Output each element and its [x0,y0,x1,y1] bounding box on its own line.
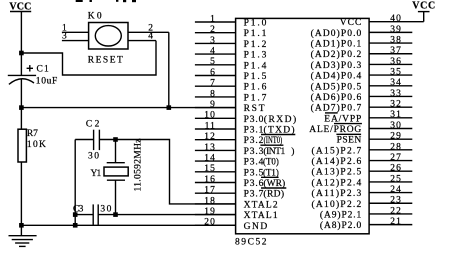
svg-text:7: 7 [210,79,216,89]
svg-text:14: 14 [204,154,216,164]
svg-text:21: 21 [390,217,402,227]
node: crystal top junction [113,137,118,142]
svg-text:28: 28 [390,142,402,152]
pin 15 (P3.5(T1) [195,164,279,178]
wire from VCC junction to button pin 4 [21,41,156,75]
svg-text:1: 1 [210,14,216,24]
svg-text:P3.4(T0): P3.4(T0) [244,157,279,168]
wire crystal bottom lead [115,180,117,214]
resistor R7 body [18,129,26,162]
svg-text:19: 19 [204,207,216,217]
node: C3 rail on ground wire [73,223,78,228]
pin 8 (P1.7) [195,89,267,103]
pin 36 ((AD3)P0.3) [311,57,413,71]
wire R7 to ground [20,162,22,236]
svg-text:4: 4 [210,47,216,57]
svg-text:(A9)P2.1: (A9)P2.1 [320,209,362,220]
pin 30 (ALE/PROG) [309,121,412,135]
pin 5 (P1.4) [195,57,267,71]
svg-text:10K: 10K [27,140,46,150]
svg-text:12: 12 [204,132,216,142]
pin 11 (P3.1(TXD) [195,121,295,135]
svg-text:35: 35 [390,68,402,78]
svg-text:P1.5: P1.5 [244,72,267,82]
svg-text:36: 36 [390,57,402,67]
svg-text:P1.7: P1.7 [244,93,267,103]
wire C2/C3 left rail [75,140,93,226]
svg-text:15: 15 [204,164,216,174]
svg-text:40: 40 [390,14,402,24]
pin 7 (P1.6) [195,79,267,93]
svg-text:13: 13 [204,143,216,153]
svg-text:31: 31 [390,110,402,120]
pin 22 ((A9)P2.1) [320,206,412,220]
pin 1 (P1.0) [195,14,267,28]
pin 27 ((A14)P2.6) [312,153,413,167]
svg-text:8: 8 [210,89,216,99]
wire C3 right to IC XTAL1 [98,214,235,216]
pin 2 (P1.1) [195,25,267,39]
svg-text:38: 38 [390,35,402,45]
svg-text:(A15)P2.7: (A15)P2.7 [312,145,362,156]
button pin 1 stub [62,23,89,33]
power VCC (right) [412,0,435,21]
svg-text:PSEN: PSEN [337,136,362,146]
node: RST junction left [19,105,24,110]
IC U1 89C52 box [236,18,370,233]
wire ground rail to IC pin 20 [21,224,235,226]
svg-text:33: 33 [390,89,402,99]
pin 20 (GND) [195,218,267,232]
svg-text:(AD3)P0.3: (AD3)P0.3 [311,60,362,71]
power VCC (left) [9,1,31,12]
svg-text:(AD7)P0.7: (AD7)P0.7 [311,103,362,114]
wire crystal top lead [115,140,117,163]
svg-text:(AD2)P0.2: (AD2)P0.2 [311,49,362,60]
svg-text:30: 30 [88,151,99,161]
svg-text:C1: C1 [37,64,49,74]
node: button pin2 on RST wire [167,105,172,110]
svg-text:17: 17 [204,186,216,196]
wire VCC rail down to C1 [20,12,22,76]
pin 19 (XTAL1) [195,207,278,221]
svg-text:22: 22 [390,206,402,216]
button pin 3 stub [62,32,89,42]
pin 4 (P1.3) [195,47,267,61]
svg-text:RST: RST [244,104,265,114]
svg-text:24: 24 [390,185,402,195]
svg-text:3: 3 [210,36,216,46]
pin 3 (P1.2) [195,36,267,50]
pin 38 ((AD1)P0.1) [311,35,413,49]
svg-text:6: 6 [210,68,216,78]
capacitor C1 (polarized) [8,75,36,84]
pin 33 ((AD6)P0.6) [311,89,413,103]
pin 28 ((A15)P2.7) [312,142,413,156]
svg-text:(AD6)P0.6: (AD6)P0.6 [311,92,362,103]
svg-text:30: 30 [100,205,111,215]
svg-text:P1.2: P1.2 [244,40,267,50]
svg-text:37: 37 [390,46,402,56]
svg-text:89C52: 89C52 [235,237,267,247]
svg-text:16: 16 [204,175,216,185]
svg-text:26: 26 [390,164,402,174]
svg-text:18: 18 [204,196,216,206]
svg-text:P1.1: P1.1 [244,29,267,39]
svg-text:VCC: VCC [9,1,31,12]
svg-text:34: 34 [390,78,402,88]
svg-text:P3.0(RXD): P3.0(RXD) [244,114,297,125]
button pin 4 stub [128,32,156,42]
svg-text:XTAL1: XTAL1 [244,211,278,221]
svg-text:(A8)P2.0: (A8)P2.0 [320,220,362,231]
svg-text:20: 20 [204,218,216,228]
pin 14 (P3.4(T0) [195,154,279,168]
svg-text:P3.7(RD): P3.7(RD) [244,189,285,200]
svg-text:2: 2 [210,25,216,35]
svg-text:(A14)P2.6: (A14)P2.6 [312,156,362,167]
svg-text:GND: GND [244,222,268,232]
pin 31 (EA/VPP) [324,110,412,124]
crystal Y1 [104,163,128,181]
svg-text:ALE/PROG: ALE/PROG [309,125,361,135]
svg-text:9: 9 [210,100,216,110]
pin 18 (XTAL2) [195,196,278,210]
svg-text:(AD4)P0.4: (AD4)P0.4 [311,71,362,82]
svg-text:(AD0)P0.0: (AD0)P0.0 [311,28,362,39]
svg-text:(AD1)P0.1: (AD1)P0.1 [311,39,362,50]
pin 25 ((A12)P2.4) [312,174,413,188]
pin 6 (P1.5) [195,68,267,82]
svg-text:R7: R7 [27,129,38,139]
pin 12 (P3.2(INT0) [195,132,284,146]
svg-text:(A12)P2.4: (A12)P2.4 [312,177,362,188]
svg-text:K0: K0 [88,11,102,21]
svg-text:5: 5 [210,57,216,67]
svg-text:VCC: VCC [340,18,362,28]
svg-text:(AD5)P0.5: (AD5)P0.5 [311,81,362,92]
svg-text:29: 29 [390,132,402,142]
svg-text:11.0592MHz: 11.0592MHz [133,139,143,192]
wire C1 bottom to RST rail [20,80,22,108]
pin 26 ((A13)P2.5) [312,164,413,178]
svg-text:RESET: RESET [88,56,123,66]
svg-text:30: 30 [390,121,402,131]
svg-text:(A13)P2.5: (A13)P2.5 [312,167,362,178]
svg-text:10uF: 10uF [36,76,58,86]
pin 37 ((AD2)P0.2) [311,46,413,60]
pin 13 (P3.3(INT1) [195,143,295,157]
svg-text:(A11)P2.3: (A11)P2.3 [312,188,362,199]
pin 35 ((AD4)P0.4) [311,68,413,82]
svg-text:11: 11 [205,121,216,131]
pin 40 (VCC) [340,14,424,28]
wire RST to R7 [20,108,22,130]
pin 21 ((A8)P2.0) [320,217,412,231]
svg-text:VCC: VCC [412,0,435,11]
pin 39 ((AD0)P0.0) [311,25,413,39]
svg-text:C3: C3 [73,205,84,215]
svg-text:P1.6: P1.6 [244,83,267,93]
svg-text:27: 27 [390,153,402,163]
pin 16 (P3.6(WR) [195,175,286,189]
pin 24 ((A11)P2.3) [312,185,413,199]
svg-text:P1.0: P1.0 [244,19,267,29]
pin 34 ((AD5)P0.5) [311,78,413,92]
svg-text:XTAL2: XTAL2 [244,200,278,210]
wire C2 right to IC XTAL2 [99,140,235,204]
pin 23 ((A10)P2.2) [312,196,413,210]
pin 10 (P3.0(RXD) [195,111,296,125]
svg-text:25: 25 [390,174,402,184]
svg-text:3: 3 [62,32,68,42]
svg-text:Y1: Y1 [91,169,102,179]
svg-text:P1.4: P1.4 [244,61,267,71]
svg-text:32: 32 [390,100,402,110]
crop artifacts top edge [76,0,136,2]
label + C1 [27,64,49,74]
pushbutton K0 body [89,23,128,50]
svg-text:P1.3: P1.3 [244,51,267,61]
node: VCC / button junction [19,51,24,56]
ground symbol [9,236,37,247]
node: crystal bottom junction [113,212,118,217]
wire RST to IC pin 9 [21,107,235,109]
svg-text:4: 4 [148,32,154,42]
svg-text:(A10)P2.2: (A10)P2.2 [312,199,362,210]
svg-text:P3.3(INT1): P3.3(INT1) [244,146,295,157]
pin 32 ((AD7)P0.7) [311,100,413,114]
capacitor C2 [94,130,100,150]
svg-text:23: 23 [390,196,402,206]
svg-text:10: 10 [204,111,216,121]
pin 9 (RST) [195,100,265,114]
svg-text:EA/VPP: EA/VPP [324,114,361,124]
pin 17 (P3.7(RD) [195,186,284,200]
button pin 2 wire to RST [128,23,169,107]
pin 29 (PSEN) [336,132,412,146]
svg-text:39: 39 [390,25,402,35]
capacitor C3 [93,204,98,225]
node: ground rail junction [19,223,24,228]
node: C3 left junction [73,212,78,217]
svg-text:C2: C2 [86,120,100,130]
